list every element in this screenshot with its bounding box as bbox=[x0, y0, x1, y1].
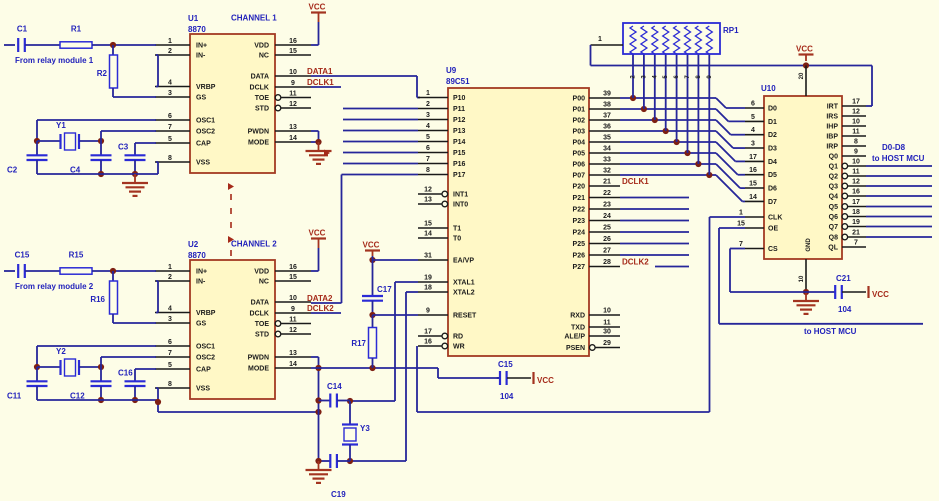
svg-text:STD: STD bbox=[255, 106, 269, 113]
wire OSC2 bbox=[101, 131, 156, 141]
svg-text:T0: T0 bbox=[453, 236, 461, 243]
svg-text:IRT: IRT bbox=[827, 104, 839, 111]
svg-text:C2: C2 bbox=[7, 166, 18, 175]
svg-text:5: 5 bbox=[168, 362, 172, 369]
wire cap to resistor bbox=[25, 270, 60, 272]
svg-text:P17: P17 bbox=[453, 172, 466, 179]
svg-text:10: 10 bbox=[799, 275, 805, 282]
resistor R16 shunt bbox=[90, 271, 117, 323]
svg-text:8: 8 bbox=[426, 167, 430, 174]
svg-text:D4: D4 bbox=[768, 159, 777, 166]
svg-text:Q2: Q2 bbox=[829, 174, 838, 181]
svg-text:DCLK: DCLK bbox=[250, 85, 269, 92]
svg-text:IHP: IHP bbox=[826, 124, 838, 131]
junction VSS rail ch2 bbox=[155, 399, 161, 405]
svg-text:Y3: Y3 bbox=[360, 424, 370, 433]
wire OSC2 bbox=[101, 357, 156, 367]
svg-text:Q5: Q5 bbox=[829, 204, 838, 211]
capacitor C19 bbox=[319, 454, 351, 499]
svg-text:D6: D6 bbox=[768, 186, 777, 193]
svg-text:P01: P01 bbox=[573, 107, 586, 114]
svg-text:P22: P22 bbox=[573, 207, 586, 214]
wire cap to resistor bbox=[25, 44, 60, 46]
svg-text:39: 39 bbox=[603, 91, 611, 98]
pins U2 left side bbox=[155, 264, 216, 393]
wire DATA1 U1 to U9 P10 bbox=[311, 76, 420, 98]
wires U10 outputs to host bbox=[866, 166, 932, 237]
svg-text:Y1: Y1 bbox=[56, 121, 66, 130]
svg-text:15: 15 bbox=[749, 181, 757, 188]
continuation arrow P1 bus bbox=[324, 150, 330, 157]
svg-text:15: 15 bbox=[289, 274, 297, 281]
svg-text:19: 19 bbox=[424, 275, 432, 282]
junction EA node bbox=[369, 257, 375, 263]
svg-text:12: 12 bbox=[852, 109, 860, 116]
svg-text:7: 7 bbox=[168, 124, 172, 131]
svg-text:4: 4 bbox=[751, 127, 755, 134]
svg-text:Y2: Y2 bbox=[56, 347, 66, 356]
svg-text:C19: C19 bbox=[331, 490, 346, 499]
net label DCLK2 at P27 bbox=[622, 258, 649, 267]
svg-text:R17: R17 bbox=[351, 339, 366, 348]
svg-text:P25: P25 bbox=[573, 241, 586, 248]
svg-text:9: 9 bbox=[426, 308, 430, 315]
svg-text:NC: NC bbox=[259, 279, 269, 286]
svg-text:12: 12 bbox=[289, 101, 297, 108]
svg-text:3: 3 bbox=[168, 90, 172, 97]
net label D0-D8 bbox=[882, 143, 906, 152]
svg-text:P24: P24 bbox=[573, 230, 586, 237]
net label DCLK2 at U2 bbox=[307, 304, 334, 313]
svg-text:89C51: 89C51 bbox=[446, 77, 470, 86]
net label DCLK1 at P20 bbox=[622, 177, 649, 186]
wire U10 pin17 to VCC rail bbox=[866, 66, 872, 107]
svg-text:10: 10 bbox=[289, 69, 297, 76]
resistor R1 series bbox=[60, 25, 92, 49]
VCC tick C15 bbox=[534, 372, 555, 385]
svg-text:4: 4 bbox=[168, 80, 172, 87]
svg-text:Q0: Q0 bbox=[829, 154, 838, 161]
capacitor C15 series input bbox=[15, 251, 30, 279]
svg-text:to HOST MCU: to HOST MCU bbox=[804, 327, 857, 336]
svg-text:VCC: VCC bbox=[537, 376, 554, 385]
junction rail mid bbox=[98, 171, 104, 177]
svg-text:DATA: DATA bbox=[251, 300, 269, 307]
svg-text:From relay module 2: From relay module 2 bbox=[15, 282, 94, 291]
svg-text:R2: R2 bbox=[97, 69, 108, 78]
svg-text:XTAL1: XTAL1 bbox=[453, 280, 475, 287]
svg-text:25: 25 bbox=[603, 225, 611, 232]
svg-text:38: 38 bbox=[603, 102, 611, 109]
crystal Y3 bbox=[342, 401, 370, 461]
svg-text:IRP: IRP bbox=[826, 144, 838, 151]
pins U1 left side bbox=[155, 38, 216, 167]
wires U9 P11-P16 stubs bbox=[343, 109, 418, 164]
svg-text:5: 5 bbox=[426, 134, 430, 141]
net label DCLK1 at U1 bbox=[307, 78, 334, 87]
svg-text:C15: C15 bbox=[15, 251, 30, 260]
wire input left U1 bbox=[4, 44, 15, 46]
svg-text:10: 10 bbox=[603, 308, 611, 315]
svg-text:Q3: Q3 bbox=[829, 184, 838, 191]
svg-text:DATA1: DATA1 bbox=[307, 67, 333, 76]
svg-text:P06: P06 bbox=[573, 162, 586, 169]
svg-text:D1: D1 bbox=[768, 119, 777, 126]
svg-text:ALE/P: ALE/P bbox=[564, 334, 585, 341]
wire crystal right bbox=[79, 140, 101, 142]
svg-text:17: 17 bbox=[852, 199, 860, 206]
svg-text:8: 8 bbox=[168, 155, 172, 162]
svg-text:C3: C3 bbox=[118, 143, 129, 152]
svg-text:9: 9 bbox=[291, 306, 295, 313]
svg-text:36: 36 bbox=[603, 124, 611, 131]
wire P27 stub bbox=[655, 266, 689, 268]
wires U9 port2 bbox=[620, 198, 689, 256]
junction input node bbox=[110, 42, 116, 48]
wire crystal left bbox=[37, 366, 60, 368]
svg-text:VCC: VCC bbox=[309, 229, 326, 238]
svg-text:12: 12 bbox=[424, 187, 432, 194]
svg-text:P11: P11 bbox=[453, 106, 465, 113]
svg-text:7: 7 bbox=[854, 240, 858, 247]
wire U9 P17 row bbox=[342, 174, 419, 176]
svg-text:30: 30 bbox=[603, 329, 611, 336]
svg-text:1: 1 bbox=[426, 90, 430, 97]
svg-text:104: 104 bbox=[838, 305, 852, 314]
svg-text:12: 12 bbox=[852, 179, 860, 186]
junction OSC1 node bbox=[34, 364, 40, 370]
svg-text:18: 18 bbox=[424, 285, 432, 292]
resistor pack RP1 elements bbox=[630, 26, 712, 54]
svg-text:RESET: RESET bbox=[453, 313, 477, 320]
svg-text:GS: GS bbox=[196, 321, 206, 328]
svg-text:CHANNEL 2: CHANNEL 2 bbox=[231, 240, 277, 249]
junction OSC1 node bbox=[34, 138, 40, 144]
ground channel1 oscillator bbox=[122, 174, 148, 196]
label RP1 bbox=[723, 26, 739, 35]
svg-text:8870: 8870 bbox=[188, 251, 206, 260]
wire XTAL2 route bbox=[350, 292, 418, 461]
VCC tick C21 bbox=[869, 286, 890, 299]
svg-text:P23: P23 bbox=[573, 218, 586, 225]
svg-text:2: 2 bbox=[426, 101, 430, 108]
svg-text:C17: C17 bbox=[377, 285, 392, 294]
svg-text:15: 15 bbox=[289, 48, 297, 55]
svg-text:TXD: TXD bbox=[571, 325, 585, 332]
svg-text:26: 26 bbox=[603, 236, 611, 243]
svg-text:13: 13 bbox=[424, 197, 432, 204]
pins U2 right side bbox=[248, 264, 311, 373]
wire input left U2 bbox=[4, 270, 15, 272]
junction rail to PWDN vertical bbox=[315, 409, 321, 415]
svg-text:21: 21 bbox=[603, 179, 611, 186]
op... IC U9 89C51 box bbox=[448, 88, 589, 356]
svg-text:D0: D0 bbox=[768, 106, 777, 113]
svg-text:D5: D5 bbox=[768, 172, 777, 179]
svg-text:WR: WR bbox=[453, 344, 465, 351]
svg-text:VSS: VSS bbox=[196, 386, 210, 393]
svg-text:XTAL2: XTAL2 bbox=[453, 290, 475, 297]
svg-text:Q6: Q6 bbox=[829, 214, 838, 221]
svg-text:R15: R15 bbox=[69, 251, 84, 260]
svg-text:1: 1 bbox=[168, 264, 172, 271]
svg-text:D0-D8: D0-D8 bbox=[882, 143, 906, 152]
svg-text:U1: U1 bbox=[188, 14, 199, 23]
wire crystal left bbox=[37, 140, 60, 142]
svg-text:DCLK1: DCLK1 bbox=[622, 177, 649, 186]
svg-text:11: 11 bbox=[852, 129, 860, 136]
svg-text:104: 104 bbox=[500, 392, 514, 401]
svg-text:P16: P16 bbox=[453, 161, 466, 168]
dashed channel continuation line bbox=[228, 183, 234, 256]
svg-text:C16: C16 bbox=[118, 369, 133, 378]
IC box U1 bbox=[190, 34, 275, 173]
wire U10 CLK to WR bbox=[710, 217, 746, 412]
wire RESET bbox=[373, 314, 419, 316]
IC box U2 bbox=[190, 260, 275, 399]
svg-text:DCLK: DCLK bbox=[250, 311, 269, 318]
svg-text:PWDN: PWDN bbox=[248, 355, 269, 362]
svg-text:16: 16 bbox=[749, 167, 757, 174]
svg-text:6: 6 bbox=[426, 145, 430, 152]
wire shunt resistor to GS pin bbox=[113, 96, 156, 98]
designator U10 bbox=[761, 84, 776, 93]
svg-text:11: 11 bbox=[852, 169, 860, 176]
svg-text:STD: STD bbox=[255, 332, 269, 339]
svg-text:2: 2 bbox=[168, 274, 172, 281]
svg-text:U9: U9 bbox=[446, 66, 457, 75]
junction VCC rail bbox=[803, 62, 809, 68]
svg-text:P20: P20 bbox=[573, 184, 586, 191]
junction rail mid bbox=[98, 397, 104, 403]
svg-text:4: 4 bbox=[426, 123, 430, 130]
svg-text:C21: C21 bbox=[836, 274, 851, 283]
wires RP1 resistor pack drops bbox=[633, 54, 709, 175]
svg-text:IN-: IN- bbox=[196, 279, 206, 286]
crystal Y2 bbox=[56, 347, 79, 376]
svg-text:37: 37 bbox=[603, 113, 611, 120]
net label to HOST MCU bottom bbox=[804, 327, 857, 336]
wire DATA2 U2 to U9 P17 bbox=[311, 175, 342, 304]
svg-text:32: 32 bbox=[603, 168, 611, 175]
junction U10 ground bbox=[803, 289, 809, 295]
wire PWDN MODE tie ch1 bbox=[311, 131, 319, 142]
svg-text:R16: R16 bbox=[90, 295, 105, 304]
capacitor C4 osc mid bbox=[70, 141, 112, 175]
svg-text:R1: R1 bbox=[71, 25, 82, 34]
svg-text:5: 5 bbox=[168, 136, 172, 143]
label CHANNEL 1 bbox=[231, 14, 277, 23]
svg-text:DCLK1: DCLK1 bbox=[307, 78, 334, 87]
VCC symbol U2 bbox=[309, 229, 327, 249]
svg-text:8: 8 bbox=[168, 381, 172, 388]
VCC symbol EA bbox=[363, 241, 381, 257]
capacitor C17 reset bbox=[362, 260, 392, 315]
capacitor C1 series input bbox=[17, 25, 28, 53]
svg-text:RD: RD bbox=[453, 334, 463, 341]
svg-text:IBP: IBP bbox=[826, 134, 838, 141]
svg-text:DATA2: DATA2 bbox=[307, 294, 333, 303]
svg-text:12: 12 bbox=[289, 327, 297, 334]
resistor R2 shunt bbox=[97, 45, 118, 97]
svg-text:6: 6 bbox=[168, 339, 172, 346]
svg-text:C1: C1 bbox=[17, 25, 28, 34]
text from relay bbox=[15, 56, 94, 65]
svg-text:INT0: INT0 bbox=[453, 202, 468, 209]
svg-text:10: 10 bbox=[852, 159, 860, 166]
svg-text:2: 2 bbox=[168, 48, 172, 55]
wire DCLK1 stub bbox=[311, 86, 341, 88]
crystal Y1 bbox=[56, 121, 79, 150]
svg-text:10: 10 bbox=[289, 295, 297, 302]
svg-text:INT1: INT1 bbox=[453, 192, 468, 199]
svg-text:IRS: IRS bbox=[826, 114, 838, 121]
svg-text:P04: P04 bbox=[573, 140, 586, 147]
svg-text:P21: P21 bbox=[573, 195, 586, 202]
svg-text:3: 3 bbox=[751, 141, 755, 148]
wire VDD to VCC bbox=[311, 248, 319, 271]
svg-text:P15: P15 bbox=[453, 150, 466, 157]
capacitor C15 bbox=[497, 360, 531, 401]
svg-text:OSC2: OSC2 bbox=[196, 129, 215, 136]
svg-text:4: 4 bbox=[168, 306, 172, 313]
svg-text:DATA: DATA bbox=[251, 74, 269, 81]
svg-text:Q4: Q4 bbox=[829, 194, 838, 201]
svg-text:D7: D7 bbox=[768, 199, 777, 206]
svg-text:GND: GND bbox=[806, 238, 812, 252]
svg-text:33: 33 bbox=[603, 157, 611, 164]
pins U9 right side bbox=[564, 91, 620, 353]
svg-text:6: 6 bbox=[751, 101, 755, 108]
svg-text:RXD: RXD bbox=[570, 313, 585, 320]
svg-text:OE: OE bbox=[768, 226, 778, 233]
svg-text:CHANNEL 1: CHANNEL 1 bbox=[231, 14, 277, 23]
wire ground rail bbox=[37, 399, 158, 401]
svg-text:17: 17 bbox=[424, 329, 432, 336]
svg-text:VCC: VCC bbox=[363, 241, 380, 250]
junction RESET node bbox=[369, 312, 375, 318]
svg-text:Q8: Q8 bbox=[829, 235, 838, 242]
wire XTAL1 route bbox=[350, 282, 418, 401]
svg-text:VCC: VCC bbox=[796, 45, 813, 54]
designator U1 bbox=[188, 14, 206, 34]
svg-text:18: 18 bbox=[852, 209, 860, 216]
svg-text:16: 16 bbox=[289, 264, 297, 271]
junction input node bbox=[110, 268, 116, 274]
svg-text:D3: D3 bbox=[768, 146, 777, 153]
svg-text:MODE: MODE bbox=[248, 140, 269, 147]
svg-text:16: 16 bbox=[424, 339, 432, 346]
wire U10 CS to ground bbox=[730, 249, 806, 293]
wire ch2 ground rail to bus bbox=[158, 411, 319, 413]
junction OSC2 node bbox=[98, 364, 104, 370]
svg-text:13: 13 bbox=[289, 350, 297, 357]
pins U10 left side bbox=[737, 101, 782, 254]
capacitor C3 cap pin bbox=[118, 143, 156, 175]
label CHANNEL 2 bbox=[231, 240, 277, 249]
wire shunt resistor to GS pin bbox=[113, 322, 156, 324]
wires U9 port0 to U10 data bbox=[620, 98, 745, 201]
svg-text:31: 31 bbox=[424, 253, 432, 260]
capacitor C16 cap pin bbox=[118, 369, 156, 401]
svg-text:17: 17 bbox=[749, 154, 757, 161]
svg-text:14: 14 bbox=[749, 194, 757, 201]
svg-text:C11: C11 bbox=[7, 392, 22, 401]
capacitor C11 osc left bbox=[7, 367, 48, 401]
junction C19 left bbox=[315, 458, 321, 464]
svg-text:VRBP: VRBP bbox=[196, 310, 216, 317]
svg-text:23: 23 bbox=[603, 202, 611, 209]
svg-text:GS: GS bbox=[196, 95, 206, 102]
svg-text:P07: P07 bbox=[573, 173, 586, 180]
designator U2 bbox=[188, 240, 206, 260]
svg-text:VDD: VDD bbox=[254, 43, 269, 50]
resistor R15 series bbox=[60, 251, 92, 275]
net label DATA1 at U1 bbox=[307, 67, 333, 76]
svg-text:OSC1: OSC1 bbox=[196, 344, 215, 351]
svg-text:CS: CS bbox=[768, 246, 778, 253]
svg-text:PWDN: PWDN bbox=[248, 129, 269, 136]
svg-text:VCC: VCC bbox=[872, 290, 889, 299]
svg-text:P12: P12 bbox=[453, 117, 466, 124]
svg-text:DCLK2: DCLK2 bbox=[622, 258, 649, 267]
net label DATA2 at U2 bbox=[307, 294, 333, 303]
svg-text:7: 7 bbox=[739, 241, 743, 248]
svg-text:15: 15 bbox=[737, 221, 745, 228]
svg-text:14: 14 bbox=[289, 361, 297, 368]
svg-text:17: 17 bbox=[852, 99, 860, 106]
svg-text:16: 16 bbox=[289, 38, 297, 45]
wire U10 OE to host bbox=[719, 228, 923, 324]
svg-text:C14: C14 bbox=[327, 382, 342, 391]
capacitor C14 bbox=[319, 382, 351, 408]
svg-text:10: 10 bbox=[852, 119, 860, 126]
junction crystal bottom bbox=[347, 458, 353, 464]
svg-text:VCC: VCC bbox=[309, 3, 326, 12]
svg-text:22: 22 bbox=[603, 190, 611, 197]
resistor R17 bbox=[351, 315, 376, 368]
pin 10 GND U10 bbox=[799, 238, 812, 292]
svg-text:3: 3 bbox=[168, 316, 172, 323]
svg-text:DCLK2: DCLK2 bbox=[307, 304, 334, 313]
svg-text:NC: NC bbox=[259, 53, 269, 60]
svg-text:13: 13 bbox=[289, 124, 297, 131]
pins U10 right side bbox=[826, 99, 866, 252]
ground U10 bbox=[793, 292, 819, 314]
capacitor C21 bbox=[806, 274, 866, 314]
svg-text:14: 14 bbox=[424, 231, 432, 238]
designator U9 bbox=[446, 66, 470, 86]
svg-text:8870: 8870 bbox=[188, 25, 206, 34]
svg-text:21: 21 bbox=[852, 230, 860, 237]
wire OSC1 bbox=[37, 346, 156, 367]
svg-text:P03: P03 bbox=[573, 129, 586, 136]
ground U1 mode bbox=[306, 142, 332, 164]
svg-text:7: 7 bbox=[168, 350, 172, 357]
svg-text:IN+: IN+ bbox=[196, 43, 207, 50]
svg-text:11: 11 bbox=[289, 91, 297, 98]
junction crystal top bbox=[347, 398, 353, 404]
wire VCC rail top bbox=[591, 65, 873, 67]
svg-text:6: 6 bbox=[168, 113, 172, 120]
svg-text:3: 3 bbox=[426, 112, 430, 119]
svg-text:P05: P05 bbox=[573, 151, 586, 158]
svg-text:1: 1 bbox=[598, 36, 602, 43]
wire IN- to VRBP loop bbox=[156, 55, 158, 87]
ground crystal chain bbox=[306, 461, 332, 483]
svg-text:C15: C15 bbox=[498, 360, 513, 369]
svg-text:34: 34 bbox=[603, 146, 611, 153]
